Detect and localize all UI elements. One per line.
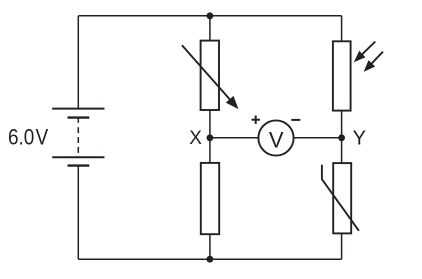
variable resistor R1 arrow	[182, 45, 238, 108]
wire right branch: top rail to LDR	[341, 16, 343, 42]
svg-text:X: X	[189, 128, 202, 149]
thermistor (body)	[333, 163, 351, 233]
svg-text:V: V	[269, 128, 284, 153]
wire right branch: thermistor to bottom rail	[341, 233, 343, 259]
variable resistor R1 (body)	[201, 41, 219, 110]
node junction dot top	[207, 12, 214, 19]
thermistor diagonal symbol	[322, 165, 359, 231]
voltmeter V (meter circle)	[258, 120, 293, 155]
voltmeter minus sign	[291, 119, 300, 121]
wire node X to voltmeter	[211, 137, 258, 139]
wire left branch top (battery top terminal)	[77, 16, 79, 109]
wire top rail	[78, 15, 341, 17]
svg-text:V: V	[36, 125, 49, 150]
node Y dot	[338, 134, 345, 141]
wire bottom rail	[78, 258, 341, 260]
wire left branch bottom (battery bottom terminal)	[77, 166, 79, 260]
LDR (body)	[333, 41, 351, 110]
LDR light arrow 2	[365, 52, 383, 71]
voltmeter plus sign	[252, 116, 260, 124]
LDR light arrow 1	[355, 42, 376, 62]
wire middle branch: variable resistor to fixed resistor through node X	[209, 110, 211, 163]
fixed resistor R2 (body)	[201, 163, 219, 234]
wire voltmeter to node Y	[294, 137, 341, 139]
battery B1 (6.0V)	[52, 109, 104, 166]
svg-text:Y: Y	[353, 128, 366, 150]
node junction dot bottom	[207, 256, 214, 263]
svg-text:6.0: 6.0	[8, 125, 34, 150]
node X dot	[207, 134, 214, 141]
wire middle branch: top rail to variable resistor	[209, 16, 211, 41]
wire right branch: LDR to thermistor through node Y	[341, 111, 343, 164]
wire middle branch: fixed resistor to bottom rail	[209, 234, 211, 259]
